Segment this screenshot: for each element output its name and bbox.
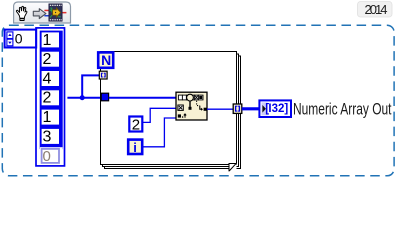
array element 7 (value 0, dimmed) [40,147,63,164]
svg-text:2014: 2014 [365,2,388,17]
svg-text:0: 0 [15,31,23,47]
auto-indexing output tunnel [] [233,104,242,113]
array element 4 (value 2, wired) [42,90,59,105]
wire: tunnel to Index Array function [109,97,176,99]
svg-text:1: 1 [43,109,52,126]
constant 2 [129,116,142,133]
VI snippet icon (filmstrip with arrow and wires) [44,4,66,21]
for loop corner fold [229,163,237,172]
svg-text:4: 4 [43,70,52,87]
wire: function output to output tunnel [207,108,233,110]
icon: index input box [178,105,183,110]
array wire: tunnel to indicator [242,107,260,110]
spin down button [7,39,13,46]
auto-indexing input tunnel [] [99,71,107,79]
icon: output square on right edge [204,108,207,111]
array element 6 (value 3) [42,129,59,144]
Index Array function U1 [176,92,207,120]
svg-text:2: 2 [43,90,52,107]
snippet toolbar tab [14,2,71,23]
svg-text:Numeric Array Out: Numeric Array Out [293,100,392,118]
array element 5 (value 1) [42,110,59,125]
svg-text:I32]: I32] [268,103,288,115]
icon: bottom-left index glyph [178,114,181,117]
icon: magnifier circle with stem [187,94,194,101]
wire: constant 2 to function [143,108,177,122]
array element 1 (value 1) [42,32,59,47]
svg-text:2: 2 [132,116,140,133]
array element 3 (value 4) [42,71,59,86]
run arrow icon [33,9,46,19]
array index box [5,30,37,48]
snippet dashed border [2,25,394,176]
wire: array element 4 to loop (array wire) [67,97,101,99]
wire: i terminal to function [143,118,176,147]
array constant shell [36,28,65,166]
svg-text:0: 0 [43,148,51,165]
I32 array indicator terminal [259,100,291,117]
svg-text:i: i [133,140,137,155]
operate tool hand icon [16,6,27,20]
svg-text:N: N [101,52,111,68]
svg-text:3: 3 [43,128,52,145]
svg-text:2: 2 [43,51,52,68]
wire: branch up to auto-indexing tunnel [82,75,99,97]
svg-text:1: 1 [43,32,52,49]
N count terminal [98,52,113,68]
array element 2 (value 2) [42,52,59,67]
non-indexing input tunnel (solid) [101,93,108,101]
2014 version tag [358,2,393,18]
spin up button [7,32,13,39]
for loop border (stacked frames) [101,52,241,169]
icon: dotted route to output [197,101,200,106]
icon: array strip [178,95,203,100]
wire junction [80,95,85,100]
iteration terminal i [128,140,142,155]
